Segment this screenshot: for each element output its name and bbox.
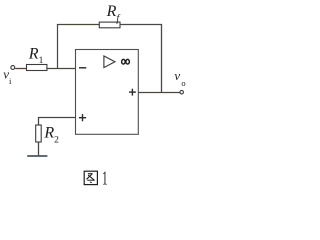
- output polarity marker: [129, 89, 136, 96]
- wire feedback tap up: [57, 25, 59, 69]
- svg-text:R1: R1: [28, 45, 44, 66]
- svg-text:vo: vo: [174, 68, 185, 88]
- op-amp U1 box: [76, 50, 139, 135]
- svg-text:Rf: Rf: [106, 3, 121, 24]
- wire Rf to output node: [120, 25, 162, 93]
- resistor Rf: [99, 22, 120, 28]
- caption figure character: [84, 171, 97, 184]
- resistor R2: [36, 125, 42, 142]
- wire non-inverting input from R2: [39, 118, 76, 126]
- wire R2 to ground: [38, 142, 40, 156]
- resistor R1: [27, 65, 47, 71]
- input terminal vi: [11, 66, 15, 70]
- output terminal vo: [180, 90, 184, 94]
- op-amp infinite gain symbol: [122, 59, 126, 64]
- svg-text:1: 1: [102, 167, 108, 189]
- ground: [27, 155, 47, 157]
- wire output: [138, 92, 179, 94]
- svg-text:vi: vi: [3, 67, 12, 87]
- inverting input marker: [79, 67, 86, 69]
- wire R1 to inverting input: [47, 68, 76, 70]
- wire vi to R1: [15, 68, 26, 70]
- wire tap to Rf: [57, 24, 99, 26]
- svg-text:R2: R2: [43, 125, 59, 146]
- op-amp triangle: [104, 56, 115, 68]
- non-inverting input marker: [79, 114, 86, 121]
